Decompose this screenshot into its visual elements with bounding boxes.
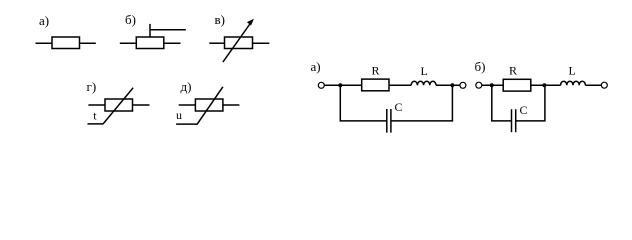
resistor symbol b: right lead xyxy=(164,42,181,44)
label a) fixed resistor xyxy=(39,13,49,28)
resistor symbol a: right lead xyxy=(80,42,96,44)
circuit1: R label xyxy=(372,64,380,78)
circuit2: right terminal xyxy=(601,82,607,88)
resistor symbol a: body xyxy=(52,37,80,49)
thermistor: left lead xyxy=(88,104,105,106)
resistor symbol v: left lead xyxy=(209,42,224,44)
varistor: body xyxy=(195,99,223,111)
svg-text:а): а) xyxy=(39,13,49,28)
circuit2: R label xyxy=(509,64,517,78)
label a) RLC circuit 1 xyxy=(311,59,321,74)
resistor symbol b: tap vertical xyxy=(149,24,151,37)
circuit1: left junction xyxy=(338,83,342,87)
circuit1: wire L to right junction xyxy=(436,84,460,86)
circuit2: resistor R body xyxy=(503,79,531,91)
svg-text:г): г) xyxy=(87,79,97,94)
svg-text:б): б) xyxy=(125,12,136,27)
circuit2: bottom wire right of C xyxy=(516,120,546,122)
circuit2: left vertical wire xyxy=(491,85,493,121)
circuit1: right terminal xyxy=(460,82,466,88)
svg-text:R: R xyxy=(372,64,380,78)
varistor: right lead xyxy=(223,104,240,106)
circuit2: inductor L coil xyxy=(561,81,586,85)
circuit1: L label xyxy=(421,64,428,78)
circuit1: C label xyxy=(395,100,403,114)
thermistor: t label xyxy=(93,108,97,122)
label g) thermistor xyxy=(87,79,97,94)
thermistor: bent diagonal stroke xyxy=(88,88,134,124)
svg-text:а): а) xyxy=(311,59,321,74)
circuit1: resistor R body xyxy=(362,79,389,91)
svg-text:C: C xyxy=(395,100,403,114)
svg-text:t: t xyxy=(93,108,97,122)
circuit2: right vertical wire xyxy=(544,85,546,121)
varistor: bent diagonal stroke xyxy=(176,87,223,124)
svg-text:R: R xyxy=(509,64,517,78)
circuit1: capacitor C left plate xyxy=(386,109,388,133)
varistor: left lead xyxy=(179,104,196,106)
circuit2: wire R to junction2 xyxy=(531,84,561,86)
circuit1: wire terminal to R xyxy=(325,84,362,86)
resistor symbol v: body xyxy=(225,37,253,49)
varistor: u label xyxy=(176,108,182,122)
circuit1: bottom wire right of C xyxy=(391,120,453,122)
label b) tapped resistor xyxy=(125,12,136,27)
resistor symbol b: body xyxy=(136,37,164,49)
circuit2: capacitor C left plate xyxy=(511,109,513,132)
circuit2: left junction xyxy=(490,83,494,87)
circuit2: L label xyxy=(569,64,576,78)
circuit1: right junction xyxy=(450,83,454,87)
svg-text:u: u xyxy=(176,108,182,122)
svg-text:L: L xyxy=(569,64,576,78)
svg-text:L: L xyxy=(421,64,428,78)
label d) varistor xyxy=(181,79,192,94)
svg-text:C: C xyxy=(520,103,528,117)
svg-text:д): д) xyxy=(181,79,192,94)
circuit2: C label xyxy=(520,103,528,117)
resistor symbol v: right lead xyxy=(253,42,270,44)
svg-text:в): в) xyxy=(215,12,225,27)
resistor symbol b: tap horizontal lead xyxy=(150,29,186,31)
thermistor: right lead xyxy=(133,104,150,106)
circuit1: right vertical wire xyxy=(451,85,453,121)
circuit1: bottom wire left of C xyxy=(340,120,387,122)
circuit2: left terminal xyxy=(476,82,482,88)
circuit1: wire R to L xyxy=(389,84,411,86)
svg-text:б): б) xyxy=(475,59,486,74)
resistor symbol v: arrowhead xyxy=(247,19,254,26)
circuit1: inductor L coil xyxy=(411,81,436,85)
thermistor: body xyxy=(105,99,133,111)
circuit2: wire terminal to R xyxy=(482,84,503,86)
resistor symbol a: left lead xyxy=(36,42,53,44)
resistor symbol v: diagonal arrow shaft xyxy=(223,21,252,62)
circuit1: left vertical wire xyxy=(339,85,341,121)
label v) variable resistor xyxy=(215,12,225,27)
circuit1: left terminal xyxy=(318,82,324,88)
circuit2: right junction xyxy=(542,83,546,87)
circuit2: bottom wire left of C xyxy=(491,120,511,122)
circuit1: capacitor C right plate xyxy=(390,109,392,133)
circuit2: wire L to terminal xyxy=(585,84,601,86)
resistor symbol b: left lead xyxy=(120,42,137,44)
label b) RLC circuit 2 xyxy=(475,59,486,74)
circuit2: capacitor C right plate xyxy=(515,109,517,132)
